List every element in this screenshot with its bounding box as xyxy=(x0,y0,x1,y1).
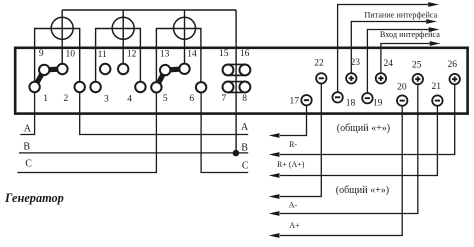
wire phase A left segment from generator to terminal 1 xyxy=(20,87,34,135)
svg-text:11: 11 xyxy=(98,50,107,60)
svg-text:12: 12 xyxy=(127,50,137,60)
wire CT2 secondary staple to terminals 3 and 4 xyxy=(96,29,141,88)
arrowhead R+ xyxy=(269,173,280,178)
svg-text:5: 5 xyxy=(163,94,168,104)
terminal 23 plus xyxy=(346,73,356,83)
svg-text:Генератор: Генератор xyxy=(4,191,64,205)
wire phase C left segment from generator to terminal 5 xyxy=(17,87,156,172)
svg-text:19: 19 xyxy=(373,98,383,108)
terminal 15 xyxy=(223,64,234,75)
terminal 21 minus xyxy=(432,95,442,105)
arrowhead interface input plus xyxy=(430,41,441,46)
node junction dot on line B xyxy=(233,150,240,157)
svg-text:A: A xyxy=(24,124,32,135)
current transformer CT2 xyxy=(112,17,134,39)
svg-text:(общий «+»): (общий «+») xyxy=(336,185,389,196)
terminal 17 minus xyxy=(301,95,311,105)
terminal 5 xyxy=(151,82,161,92)
current transformer CT3 xyxy=(174,17,196,39)
arrowhead interface input minus xyxy=(429,27,440,32)
svg-text:R+ (A+): R+ (A+) xyxy=(277,160,305,169)
wire neutral drop from bus through terminals 15/16/7/8 to junction on line B xyxy=(235,10,237,153)
svg-text:A+: A+ xyxy=(289,221,300,230)
jumper bar terminals 5-13 xyxy=(156,70,165,87)
svg-text:2: 2 xyxy=(64,94,69,104)
wire CT2 primary riser to terminal 12 xyxy=(122,10,124,69)
terminal 20 minus xyxy=(397,95,407,105)
svg-text:17: 17 xyxy=(290,97,300,107)
wire from terminal 26 to R- arrow xyxy=(280,79,455,154)
svg-text:C: C xyxy=(25,159,32,170)
svg-text:4: 4 xyxy=(127,95,132,105)
svg-text:21: 21 xyxy=(431,82,441,92)
svg-text:R-: R- xyxy=(289,140,297,149)
svg-text:26: 26 xyxy=(447,60,457,70)
terminal 10 xyxy=(57,64,67,74)
wire from terminal 21 to R+ arrow xyxy=(280,101,437,176)
wire from terminal 18 to interface power arrow xyxy=(338,5,428,98)
terminal 18 minus xyxy=(332,92,342,102)
arrowhead common plus 1 xyxy=(269,133,280,138)
terminal 8 xyxy=(239,82,250,93)
svg-text:3: 3 xyxy=(104,95,109,105)
svg-text:13: 13 xyxy=(160,50,170,60)
terminal 19 minus xyxy=(362,93,372,103)
terminal box outline xyxy=(15,48,467,114)
current transformer CT1 xyxy=(51,17,73,39)
terminal 2 xyxy=(75,82,85,92)
svg-text:Вход интерфейса: Вход интерфейса xyxy=(380,30,440,39)
svg-text:B: B xyxy=(23,142,30,153)
terminal 7 xyxy=(223,82,234,93)
terminal 25 plus xyxy=(413,74,423,84)
svg-text:23: 23 xyxy=(351,58,361,68)
terminal 14 xyxy=(179,64,189,74)
terminal 12 xyxy=(118,64,128,74)
arrowhead A+ xyxy=(269,233,280,238)
svg-text:10: 10 xyxy=(65,50,75,60)
wire CT1 primary riser to terminal 10 xyxy=(61,10,63,69)
jumper bar terminals 9-10 xyxy=(44,66,62,72)
svg-text:24: 24 xyxy=(383,59,393,69)
svg-text:A-: A- xyxy=(289,200,298,209)
svg-text:C: C xyxy=(242,160,249,171)
terminal 13 xyxy=(160,65,170,75)
terminal 6 xyxy=(196,82,206,92)
wire phase C right segment from terminal 6 to load C xyxy=(201,87,248,172)
link bars terminals 15-16 xyxy=(228,63,245,65)
svg-text:8: 8 xyxy=(242,94,247,104)
wire CT3 primary riser to terminal 14 xyxy=(184,10,186,69)
arrowhead common plus 2 xyxy=(269,194,280,199)
wire from terminal 22 to common plus arrow 2 xyxy=(280,78,321,196)
link bars terminals 7-8 xyxy=(228,81,245,83)
terminal 4 xyxy=(135,82,145,92)
wire CT3 secondary staple to terminals 5 and 6 xyxy=(156,29,201,88)
svg-text:(общий «+»): (общий «+») xyxy=(337,123,390,134)
terminal 3 xyxy=(90,82,100,92)
svg-text:15: 15 xyxy=(219,49,229,59)
wire from terminal 17 to common plus arrow 1 xyxy=(280,100,307,135)
svg-text:6: 6 xyxy=(189,94,194,104)
arrowhead A- xyxy=(269,211,280,216)
svg-text:A: A xyxy=(241,122,249,133)
svg-text:B: B xyxy=(241,142,248,153)
svg-text:14: 14 xyxy=(187,50,197,60)
wire CT1 secondary staple to terminals 1 and 2 xyxy=(35,29,80,88)
terminal 9 xyxy=(39,65,49,75)
terminal 26 plus xyxy=(450,74,460,84)
svg-text:9: 9 xyxy=(39,49,44,59)
wire from terminal 25 to A- arrow xyxy=(280,79,418,213)
arrowhead R- xyxy=(269,152,280,157)
wire top bus (load side) xyxy=(62,9,236,11)
wire from terminal 20 to A+ arrow xyxy=(280,101,402,236)
wire from terminal 24 to interface input plus arrow xyxy=(381,44,430,79)
svg-text:22: 22 xyxy=(314,59,324,69)
jumper bar terminals 1-9 xyxy=(35,70,45,87)
arrowhead interface power minus xyxy=(428,2,439,7)
terminal 11 xyxy=(100,64,110,74)
svg-text:Питание интерфейса: Питание интерфейса xyxy=(364,11,437,20)
wire phase A right segment from terminal 2 to load A xyxy=(80,87,249,135)
svg-text:7: 7 xyxy=(221,94,226,104)
jumper bar terminals 13-14 xyxy=(165,69,184,70)
terminal 22 minus xyxy=(316,73,326,83)
wire from terminal 19 to interface input arrow xyxy=(367,30,428,99)
wire phase B line xyxy=(19,152,248,154)
arrowhead interface power plus xyxy=(426,19,437,24)
svg-text:18: 18 xyxy=(346,98,356,108)
svg-text:25: 25 xyxy=(412,60,422,70)
svg-text:20: 20 xyxy=(397,83,407,93)
terminal 24 plus xyxy=(376,73,386,83)
terminal 1 xyxy=(29,82,39,92)
svg-text:1: 1 xyxy=(43,94,48,104)
wire from terminal 23 to interface power plus arrow xyxy=(351,22,426,79)
terminal 16 xyxy=(239,64,250,75)
svg-text:16: 16 xyxy=(240,49,250,59)
